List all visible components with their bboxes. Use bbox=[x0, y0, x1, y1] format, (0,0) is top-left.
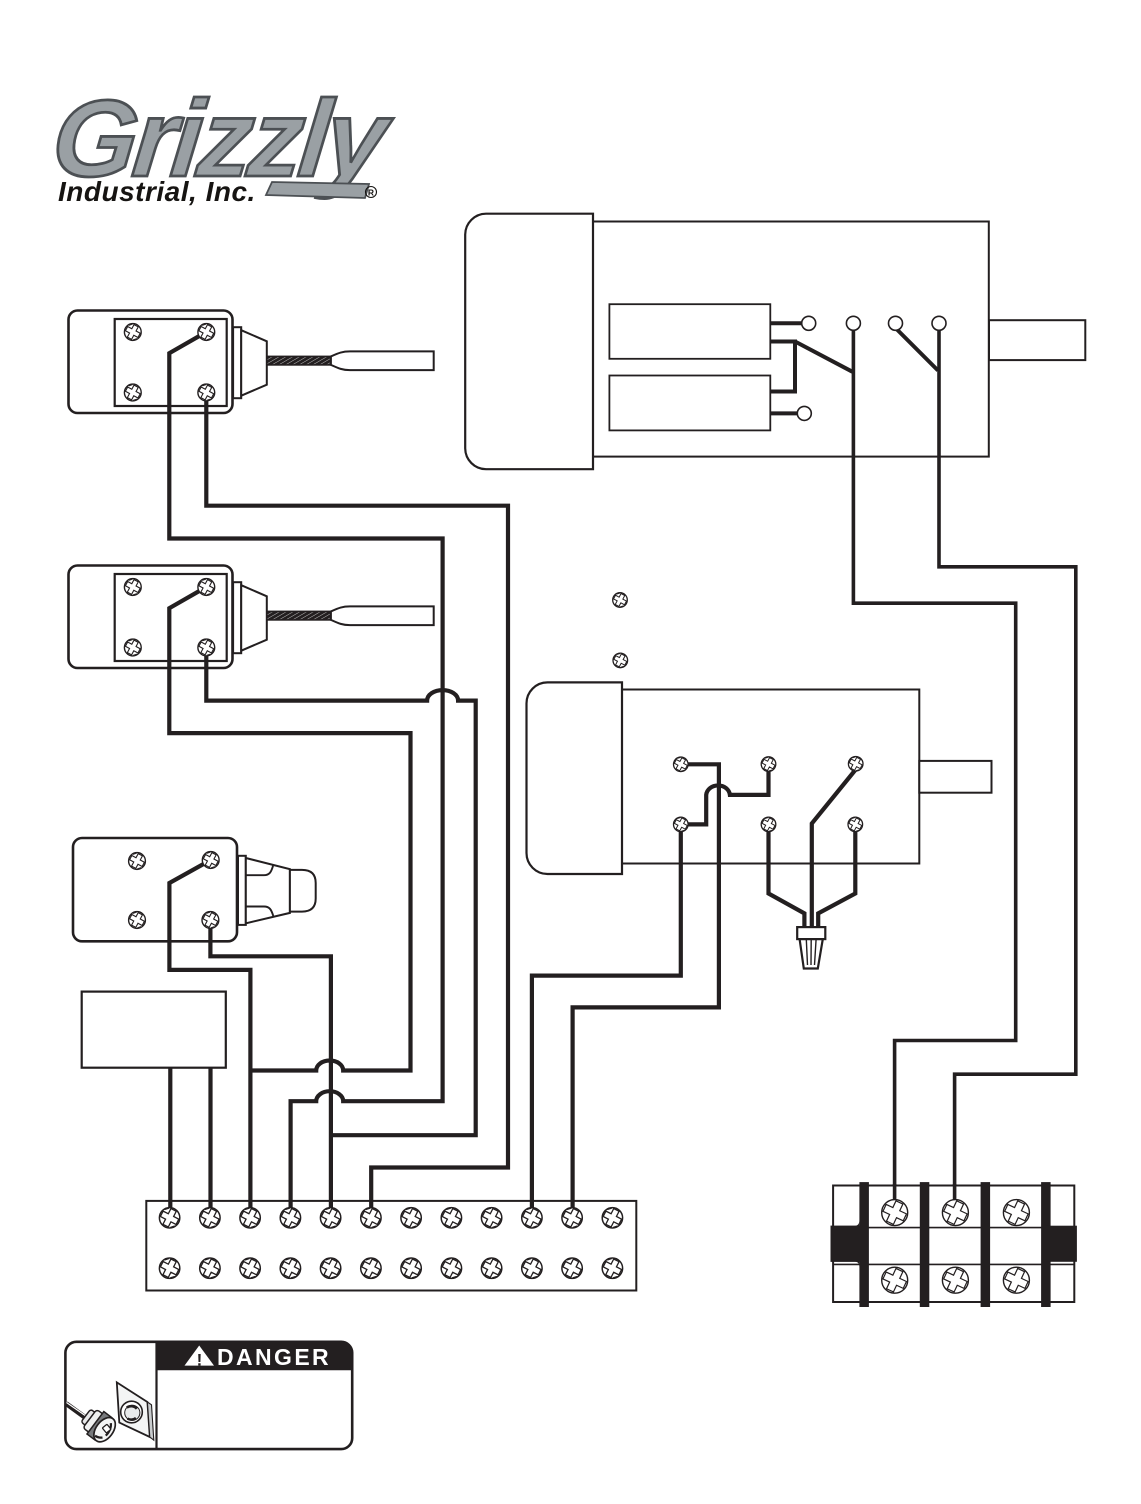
wire M2 T5 to wire nut bbox=[769, 830, 805, 927]
terminal c5 bbox=[797, 406, 811, 420]
wire c2 to terminal block pole 1 bbox=[853, 328, 1015, 1200]
wire nut bbox=[797, 927, 825, 968]
wire c4 to terminal block pole 2 bbox=[939, 328, 1076, 1200]
motor M1 shaft bbox=[989, 320, 1085, 360]
screw free 2 bbox=[612, 652, 629, 669]
wire SW1 lower terminal to strip screw 6 bbox=[206, 393, 508, 1209]
screws SW1 bbox=[123, 322, 142, 341]
wire M2 T2 to T4 with hop bbox=[687, 770, 769, 824]
receptacle socket bbox=[121, 1401, 143, 1423]
svg-text:!: ! bbox=[197, 1350, 203, 1369]
wire box1 to terminal c1 bbox=[770, 321, 801, 325]
wire SW2 lower terminal to screw 5 junction (hops W1) bbox=[206, 648, 475, 1136]
screw free 1 bbox=[612, 592, 629, 609]
wire box2 to terminal c5 bbox=[770, 411, 797, 415]
motor M1 (upper fan motor) bbox=[465, 214, 1085, 470]
wire junction box to strip screw 1 bbox=[168, 1068, 172, 1208]
wire junction box to strip screw 2 bbox=[208, 1068, 212, 1208]
terminal strip TB1 bbox=[146, 1201, 636, 1291]
svg-text:Industrial, Inc.: Industrial, Inc. bbox=[58, 176, 256, 207]
wire diagonal box1 to c2 lead bbox=[796, 342, 853, 372]
terminal c2 bbox=[846, 316, 860, 330]
wire box1 to box2 link bbox=[770, 342, 795, 392]
block left tab bbox=[831, 1220, 860, 1268]
plug cord bbox=[66, 1404, 88, 1420]
screws SW3 bbox=[127, 851, 146, 870]
limit switch SW1 bbox=[69, 311, 434, 414]
wire stub into block pole 1 bbox=[893, 1184, 897, 1206]
motor M1 body bbox=[593, 222, 989, 457]
wire diagonal c3 to c4 lead bbox=[896, 328, 939, 371]
logo Grizzly Industrial, Inc. bbox=[47, 78, 398, 207]
block divider bars bbox=[859, 1182, 869, 1307]
wire M2 T3 to wire nut bbox=[812, 770, 856, 928]
screws SW2 bbox=[123, 577, 142, 596]
junction box JB bbox=[82, 992, 226, 1068]
danger label bbox=[65, 1342, 352, 1449]
limit switch SW2 bbox=[69, 566, 434, 669]
motor M2 body bbox=[622, 690, 919, 864]
screws terminal strip row 2 bbox=[158, 1256, 182, 1280]
terminal block TB2 bbox=[831, 1182, 1077, 1307]
wire SW2 lever terminal to screw 3 junction (hops W6) bbox=[169, 587, 410, 1071]
motor M2 shaft bbox=[919, 761, 991, 793]
motor M1 end cap bbox=[465, 214, 593, 470]
terminal c4 bbox=[932, 316, 946, 330]
svg-text:DANGER: DANGER bbox=[217, 1344, 331, 1370]
wire SW1 lever terminal to strip screw 4 (hops W6) bbox=[169, 332, 442, 1208]
screws terminal block bbox=[880, 1198, 910, 1228]
wire M2 T1 to strip screw 11 bbox=[573, 764, 719, 1208]
wire M2 T6 to wire nut bbox=[818, 830, 855, 927]
terminal c1 bbox=[802, 316, 816, 330]
push-button switch SW3 bbox=[73, 838, 316, 941]
screws terminal strip row 1 bbox=[158, 1206, 182, 1230]
wire SW3 lower terminal to strip screw 5 bbox=[210, 920, 331, 1208]
danger triangle icon bbox=[185, 1346, 215, 1366]
motor M2 end cap bbox=[527, 682, 623, 874]
wire SW3 lever terminal to strip screw 3 bbox=[169, 860, 250, 1208]
capacitor box 2 bbox=[609, 376, 770, 431]
capacitor box 1 bbox=[609, 304, 770, 359]
plug body bbox=[77, 1404, 119, 1446]
wire stub into block pole 2 bbox=[953, 1184, 957, 1206]
receptacle plate bbox=[117, 1382, 150, 1437]
motor M2 (pump motor) bbox=[527, 682, 992, 874]
screws M2 terminals bbox=[672, 756, 689, 773]
terminal c3 bbox=[889, 316, 903, 330]
block right tab bbox=[1046, 1226, 1077, 1262]
wire M2 T4 to strip screw 10 bbox=[532, 830, 681, 1208]
svg-text:R: R bbox=[368, 188, 374, 198]
